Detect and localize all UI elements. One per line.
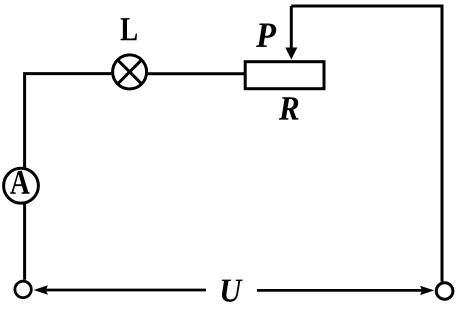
wire lamp to rheostat — [148, 72, 245, 75]
rheostat R body — [245, 62, 324, 89]
label P — [256, 23, 276, 46]
ammeter A — [4, 168, 39, 203]
arrow U left — [46, 289, 207, 292]
wire top (wiper junction to right corner) and right vertical down to terminal — [291, 6, 442, 282]
right terminal — [436, 283, 453, 300]
lamp L (circle with X) — [113, 55, 147, 89]
label R — [279, 97, 299, 119]
left terminal — [15, 281, 31, 297]
label L — [121, 18, 137, 40]
label U — [222, 280, 243, 302]
wiper P arrow — [290, 6, 293, 50]
wire left branch: corner at top-left down to bottom terminal — [25, 74, 112, 280]
arrow U right — [257, 289, 423, 292]
